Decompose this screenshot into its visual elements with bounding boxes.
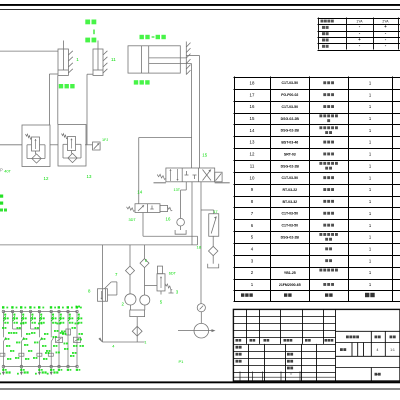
valve 15 subplate lines (154, 182, 166, 184)
svg-text:C1T-03-50: C1T-03-50 (282, 212, 299, 216)
ladder terminals bottom (2, 365, 5, 368)
svg-text:11: 11 (250, 164, 255, 169)
wire feed cylinder to valve ports (186, 55, 199, 57)
unloading valve 8 pilot loop (104, 282, 111, 289)
label forward-back text (140, 35, 144, 39)
wire valve14 bottom loop (142, 213, 144, 237)
sheet top border thick line (0, 4, 400, 6)
tank under check 16 (175, 230, 186, 234)
svg-text:12: 12 (44, 176, 49, 181)
feed cylinder wall anchor hatch (185, 42, 187, 75)
ladder output arrows (2, 368, 4, 373)
svg-text:+: + (358, 37, 361, 42)
green dashes left of pump area (76, 306, 78, 308)
svg-text:YB1-25: YB1-25 (284, 271, 296, 275)
svg-text:2YA: 2YA (382, 20, 389, 24)
motor drain arrow (209, 330, 212, 332)
svg-text:C1T-03-50: C1T-03-50 (282, 176, 299, 180)
title block right zone labels (346, 336, 349, 339)
ladder green contact symbols (3, 316, 6, 319)
svg-text:C1T-03-50: C1T-03-50 (282, 224, 299, 228)
flow control valve 17 (209, 214, 219, 237)
wire cylinder11 port down (87, 73, 93, 75)
pressure line P (0, 144, 22, 146)
wire valve15 port T down to gauge (200, 182, 202, 304)
ladder branch c2 (12, 312, 14, 330)
wire valve15 to check16 (185, 182, 187, 190)
svg-text:13T: 13T (174, 188, 181, 192)
ladder green bottom labels (2, 369, 4, 371)
svg-text:14: 14 (137, 190, 142, 195)
ladder pressure switch box c9 (73, 337, 80, 342)
sheet top border thin line (0, 9, 400, 11)
ladder branch c4 (30, 312, 32, 330)
svg-text:1FJ: 1FJ (102, 138, 108, 142)
ladder relay coils (0, 353, 5, 356)
svg-text:3DT: 3DT (129, 218, 137, 222)
ladder contacts (3, 337, 4, 341)
svg-text:18: 18 (250, 80, 255, 85)
valve 15 arrows in boxes (170, 169, 172, 181)
check valve diamond 6 (140, 259, 149, 268)
action table header text (321, 20, 324, 23)
pump 2 circle (125, 294, 136, 305)
svg-text:FG-F00-02: FG-F00-02 (281, 93, 298, 97)
pump branch lines (102, 245, 104, 342)
tank under 17 (208, 264, 219, 268)
svg-text:4: 4 (377, 348, 379, 352)
svg-text:SRT-03: SRT-03 (284, 152, 296, 156)
title block outer frame (233, 309, 400, 381)
ladder terminals top (2, 310, 5, 313)
action table rows text (322, 26, 325, 29)
svg-text:17: 17 (250, 92, 255, 97)
valve 14 right solenoid (160, 205, 168, 211)
svg-text:17: 17 (213, 209, 218, 214)
wire cylinder1 port down (49, 73, 58, 75)
svg-text:6DT: 6DT (169, 272, 177, 276)
svg-text:12: 12 (250, 152, 255, 157)
svg-text:DSG-02-2B: DSG-02-2B (281, 117, 300, 121)
svg-text:1: 1 (76, 57, 79, 62)
svg-text:11: 11 (111, 57, 116, 62)
tank line bottom (103, 341, 145, 343)
svg-text:BST-03-46: BST-03-46 (281, 141, 298, 145)
svg-text:P1: P1 (179, 359, 185, 364)
svg-text:RT-03-22: RT-03-22 (283, 188, 298, 192)
svg-text:C1T-03-50: C1T-03-50 (282, 81, 299, 85)
parts list bottom header row (241, 293, 244, 296)
valve 15 left spring (157, 174, 166, 179)
directional valve 14 body (135, 204, 160, 213)
solenoid action table (318, 18, 400, 51)
label feed cylinder text (134, 80, 138, 84)
svg-text:DSG-02-2B: DSG-02-2B (281, 235, 300, 239)
svg-text:DSG-02-2B: DSG-02-2B (281, 164, 300, 168)
ladder green labels top (2, 306, 4, 308)
suction header (130, 310, 145, 317)
ladder full column wires (2, 312, 4, 367)
pressure gauge (197, 304, 205, 312)
sheet bottom border thick line (0, 381, 400, 383)
ladder bottom bus (3, 366, 77, 368)
ladder component c8 tall rect (66, 329, 71, 335)
clamp cylinder 1 (58, 49, 68, 75)
check valve diamond 7 (126, 266, 135, 275)
unloading valve 8 (98, 289, 108, 302)
svg-text:BT-03-32: BT-03-32 (283, 200, 298, 204)
relief valve 5 solenoid (158, 266, 163, 274)
wire valve15 port B down to return (191, 182, 193, 245)
ladder green mid labels (8, 332, 10, 334)
relief valve 5 spring (165, 284, 172, 291)
ladder top bus (3, 311, 77, 313)
title block bottom strip cells (233, 372, 335, 382)
green stray marks left edge (0, 195, 3, 198)
sheet bottom border thin line (0, 388, 400, 390)
motor pump P1 circle (194, 323, 209, 338)
svg-text:16: 16 (250, 104, 255, 109)
feed cylinder (128, 46, 180, 73)
svg-text:14: 14 (250, 128, 255, 133)
svg-text:15: 15 (250, 116, 255, 121)
label clamp cylinder text (59, 84, 63, 88)
check valve 16 (177, 218, 185, 226)
pressure switch 1FJ (93, 142, 101, 150)
svg-text:+: + (384, 24, 387, 29)
reducing valve unit 12 (22, 125, 50, 167)
relief valve 5 (157, 274, 165, 291)
wire top-left to clamp cylinder 1 (0, 50, 58, 52)
svg-text:15: 15 (202, 153, 207, 158)
reducing valve unit 13 (58, 125, 86, 167)
suction line to filter (136, 317, 138, 327)
pump 3 circle (140, 295, 150, 305)
filter 1 diamond (132, 326, 142, 336)
main return line (0, 244, 198, 246)
svg-text:40T: 40T (4, 169, 11, 174)
valve 14 left spring (127, 207, 136, 212)
wire pump3 to relief 5 (145, 285, 158, 287)
title block small labels row (236, 339, 239, 342)
wire cylinder1 second port down (57, 75, 59, 124)
svg-text:13: 13 (87, 174, 92, 179)
wire valve14 drop from feed circuit (139, 137, 192, 139)
title block left column labels (236, 346, 239, 349)
check valve diamond under 17 (212, 236, 214, 246)
svg-text:13: 13 (250, 140, 255, 145)
wire gauge to motor (200, 312, 202, 324)
svg-text:DSG-02-2B: DSG-02-2B (281, 129, 300, 133)
valve 15 right solenoid (215, 172, 222, 182)
wire to flow valve 17 (201, 209, 214, 211)
svg-text:1:1: 1:1 (390, 348, 395, 352)
svg-text:21FM2000-65: 21FM2000-65 (279, 283, 301, 287)
svg-text:C1T-03-50: C1T-03-50 (282, 105, 299, 109)
clamp cylinder 11 (93, 49, 103, 75)
ladder pressure switch box c7 (55, 337, 62, 342)
label jiajin-songkai (85, 20, 90, 25)
svg-text:10: 10 (250, 175, 255, 180)
parts list table grid (234, 77, 400, 302)
svg-text:P: P (0, 167, 3, 172)
title block grid lines (233, 309, 400, 381)
svg-text:1YA: 1YA (356, 20, 363, 24)
svg-text:16: 16 (166, 217, 171, 222)
valve 14 internals (138, 205, 144, 211)
directional valve 15 body (166, 168, 215, 182)
